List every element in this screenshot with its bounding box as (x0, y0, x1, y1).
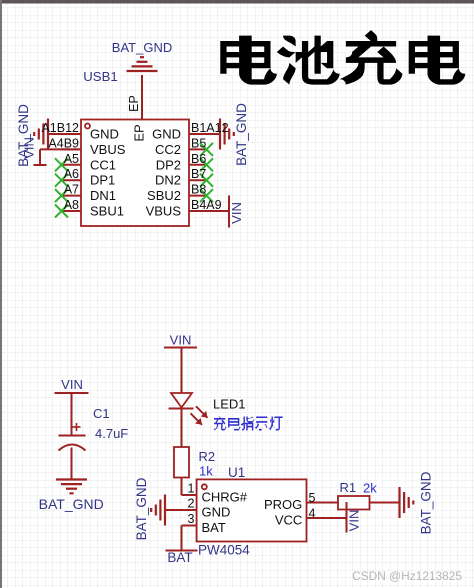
svg-text:EP: EP (132, 124, 147, 141)
svg-text:4.7uF: 4.7uF (95, 426, 128, 441)
svg-text:VIN: VIN (229, 202, 244, 224)
svg-text:CC1: CC1 (90, 157, 116, 172)
svg-text:A7: A7 (64, 183, 79, 197)
svg-text:DP1: DP1 (90, 173, 115, 188)
svg-text:A8: A8 (64, 198, 79, 212)
svg-text:BAT_GND: BAT_GND (419, 471, 434, 534)
svg-text:BAT_GND: BAT_GND (234, 103, 249, 166)
svg-text:U1: U1 (228, 465, 245, 480)
svg-text:VIN: VIN (61, 377, 83, 392)
svg-text:B7: B7 (191, 167, 206, 181)
svg-text:VCC: VCC (275, 513, 302, 528)
svg-text:SBU2: SBU2 (147, 188, 181, 203)
svg-text:VBUS: VBUS (146, 204, 182, 219)
svg-text:5: 5 (309, 491, 316, 505)
svg-text:B4A9: B4A9 (191, 198, 222, 212)
svg-text:CC2: CC2 (155, 142, 181, 157)
svg-text:CHRG#: CHRG# (202, 490, 248, 505)
svg-text:SBU1: SBU1 (90, 204, 124, 219)
svg-text:4: 4 (309, 507, 316, 521)
svg-text:LED1: LED1 (213, 397, 246, 412)
svg-text:2k: 2k (363, 481, 377, 496)
svg-text:VBUS: VBUS (90, 142, 126, 157)
svg-text:BAT_GND: BAT_GND (16, 104, 31, 167)
svg-text:1: 1 (188, 482, 195, 496)
svg-text:R1: R1 (340, 480, 357, 495)
svg-text:VIN: VIN (347, 510, 362, 532)
svg-text:BAT_GND: BAT_GND (112, 40, 172, 55)
svg-text:1k: 1k (199, 464, 213, 479)
svg-text:EP: EP (127, 95, 141, 112)
svg-text:PROG: PROG (264, 497, 302, 512)
svg-text:DP2: DP2 (156, 157, 181, 172)
svg-text:GND: GND (202, 505, 231, 520)
svg-text:R2: R2 (199, 449, 216, 464)
svg-text:B8: B8 (191, 183, 206, 197)
svg-text:3: 3 (188, 512, 195, 526)
svg-text:VIN: VIN (170, 333, 192, 348)
svg-text:PW4054: PW4054 (198, 543, 250, 558)
svg-text:A5: A5 (64, 152, 79, 166)
svg-text:2: 2 (188, 497, 195, 511)
svg-text:BAT: BAT (167, 550, 192, 565)
svg-text:A1B12: A1B12 (41, 121, 79, 135)
svg-text:BAT_GND: BAT_GND (134, 477, 149, 540)
svg-text:DN1: DN1 (90, 188, 116, 203)
svg-text:C1: C1 (93, 406, 110, 421)
svg-text:A6: A6 (64, 167, 79, 181)
svg-text:BAT: BAT (202, 520, 226, 535)
svg-text:GND: GND (152, 127, 181, 142)
svg-text:A4B9: A4B9 (48, 136, 79, 150)
svg-text:DN2: DN2 (155, 173, 181, 188)
svg-text:BAT_GND: BAT_GND (39, 496, 104, 512)
svg-text:B5: B5 (191, 136, 206, 150)
svg-text:CSDN @Hz1213825: CSDN @Hz1213825 (352, 569, 462, 583)
svg-text:B6: B6 (191, 152, 206, 166)
svg-text:USB1: USB1 (83, 69, 117, 84)
svg-text:B1A12: B1A12 (191, 121, 229, 135)
svg-text:GND: GND (90, 127, 119, 142)
